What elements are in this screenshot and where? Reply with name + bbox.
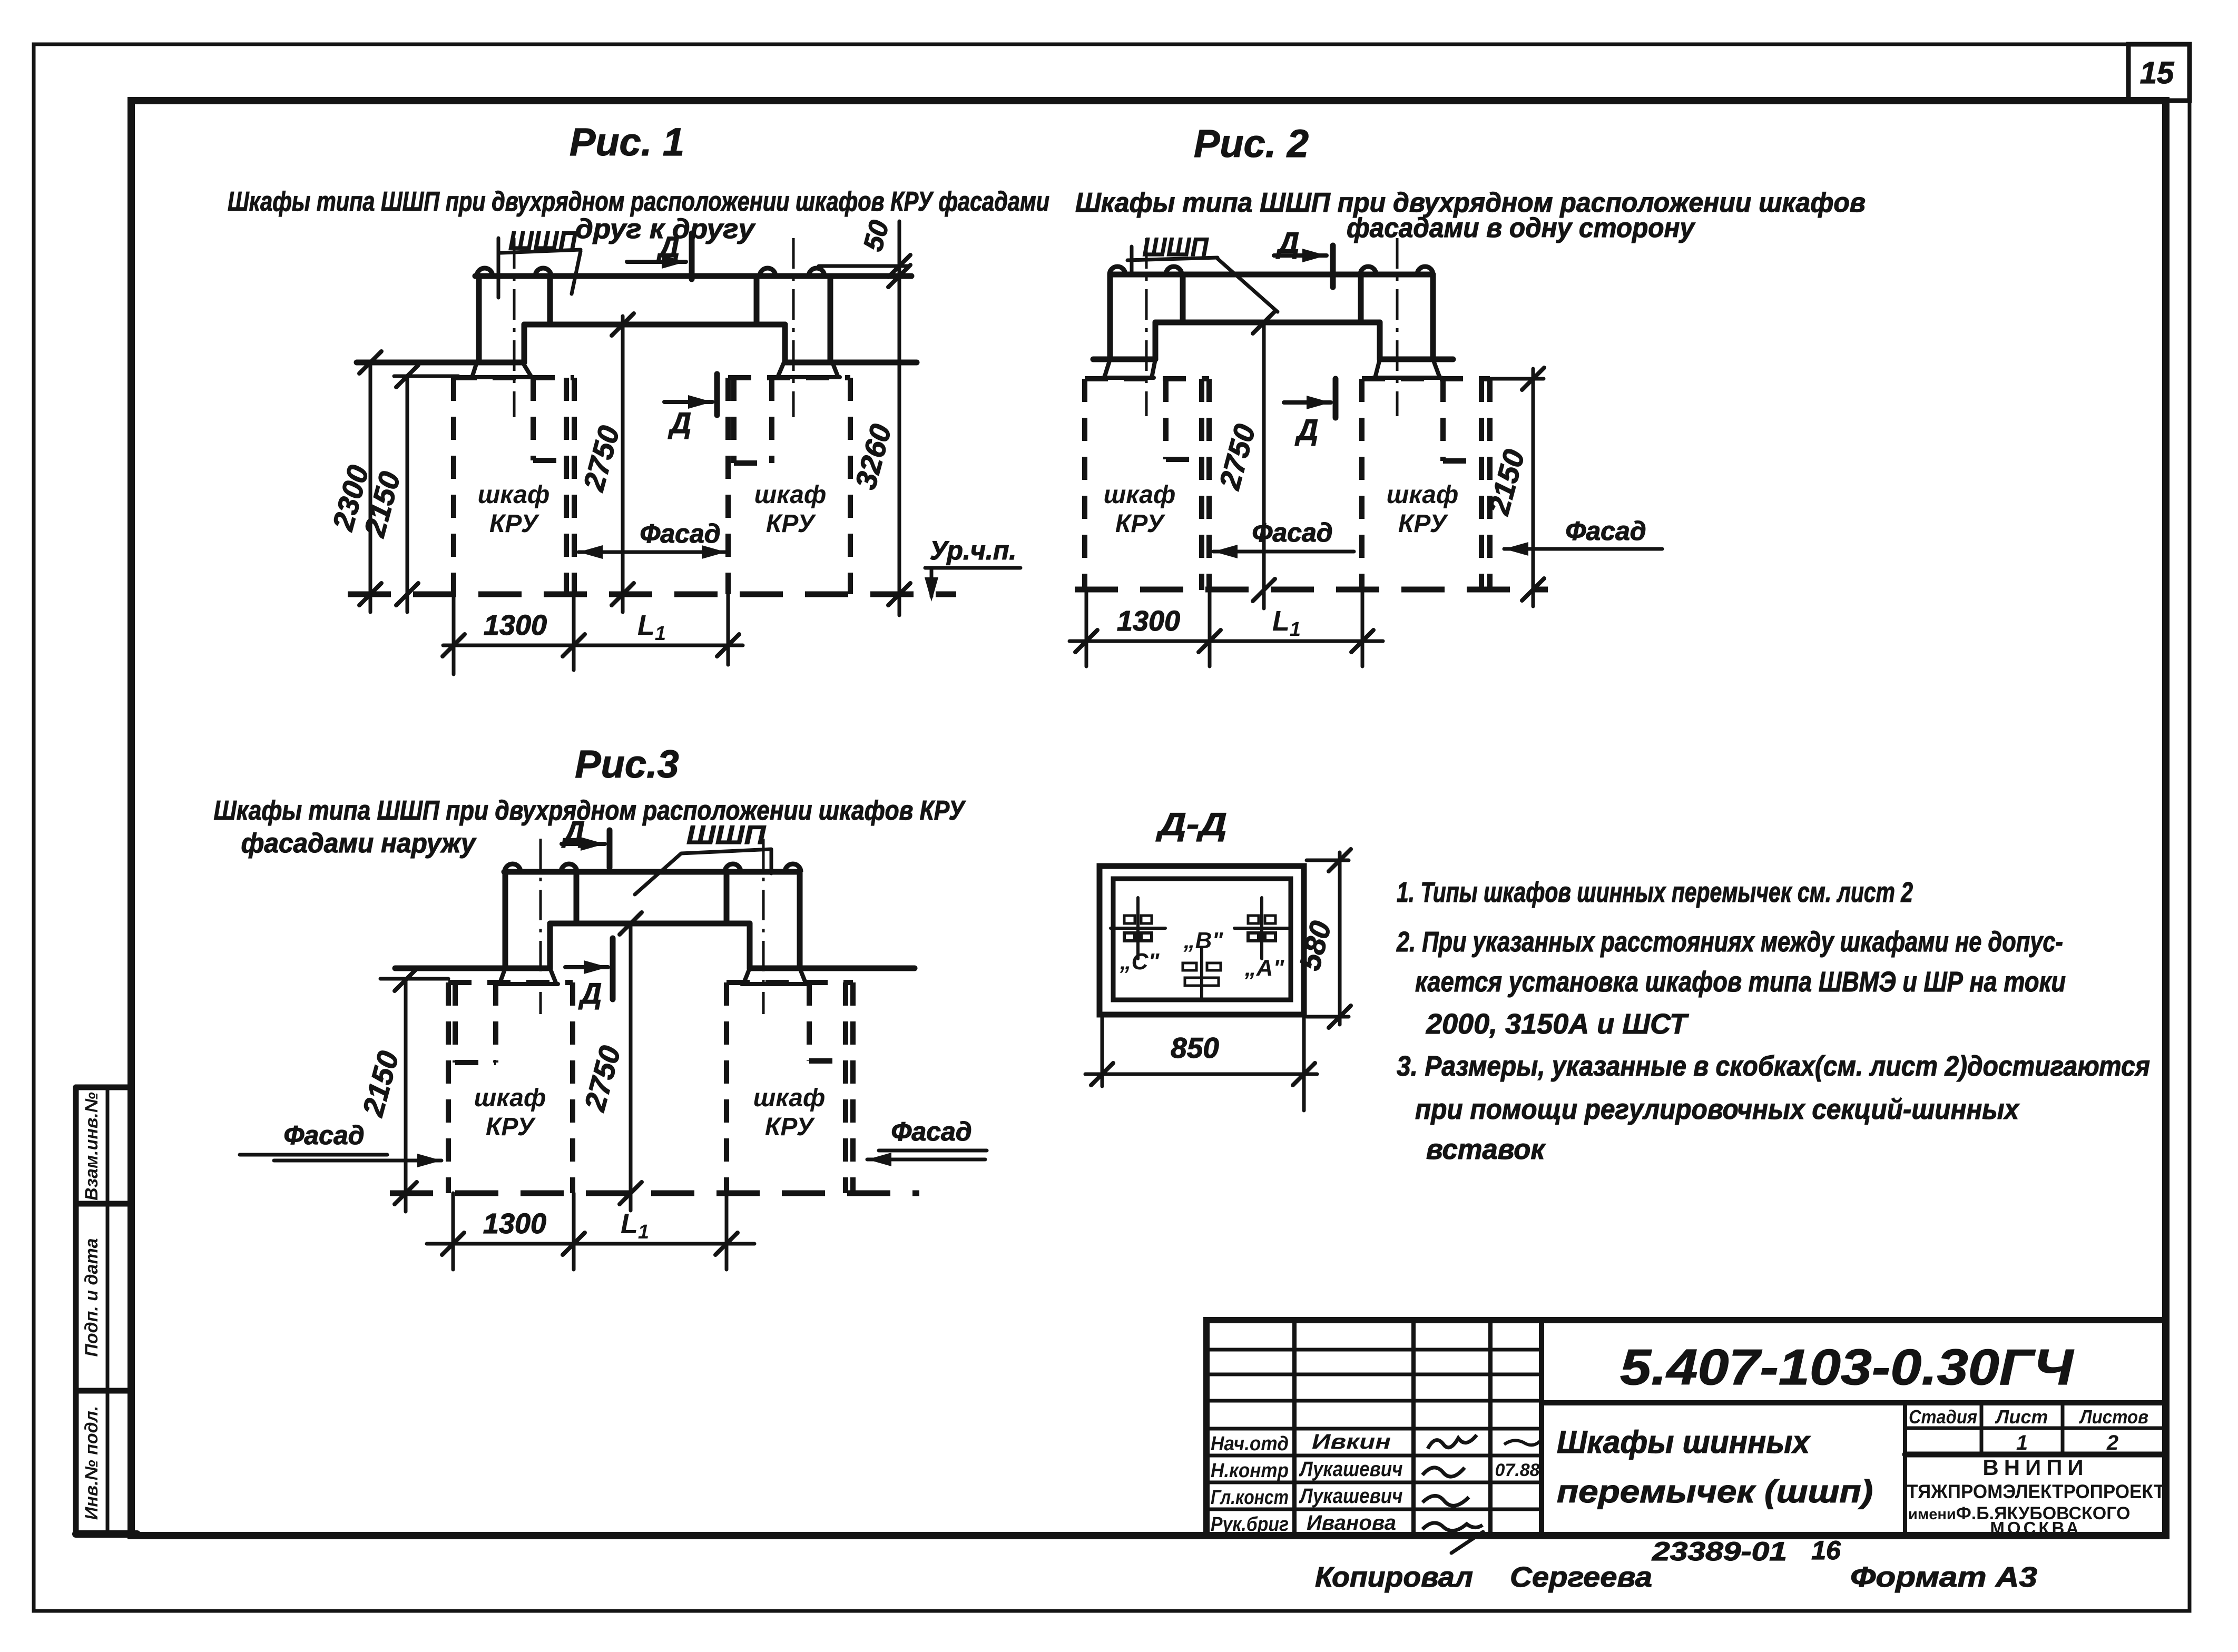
svg-text:Копировал: Копировал xyxy=(1315,1561,1473,1593)
Fig.1 lower D section marker xyxy=(714,374,720,415)
svg-text:при помощи регулировочных секц: при помощи регулировочных секций-шинных xyxy=(1415,1094,2020,1125)
svg-text:1. Типы шкафов шинных перемыче: 1. Типы шкафов шинных перемычек см. лист… xyxy=(1397,877,1913,908)
Fig.2 right skirt xyxy=(1375,359,1380,378)
Fig.2 lower D section marker xyxy=(1333,379,1339,418)
Fig.3 right cabinet (dashed) xyxy=(724,982,729,1193)
Fig.3 lifting loops xyxy=(505,864,521,872)
svg-text:1300: 1300 xyxy=(1117,605,1180,637)
Fig.1 SHSHP top line xyxy=(475,273,911,279)
title block outer box xyxy=(1206,1320,2166,1536)
svg-text:Шкафы шинных: Шкафы шинных xyxy=(1557,1424,1811,1460)
svg-text:ТЯЖПРОМЭЛЕКТРОПРОЕКТ: ТЯЖПРОМЭЛЕКТРОПРОЕКТ xyxy=(1907,1481,2165,1502)
Fig.1 ground line (dashed) xyxy=(348,592,956,597)
svg-text:Ивкин: Ивкин xyxy=(1312,1430,1391,1453)
Fig.3 right skirt xyxy=(743,968,750,984)
svg-text:шкаф: шкаф xyxy=(754,481,827,509)
title block verticals xyxy=(1292,1320,1297,1536)
svg-text:Фасад: Фасад xyxy=(640,519,720,548)
svg-text:Стадия: Стадия xyxy=(1909,1406,1977,1428)
left margin stamp strip xyxy=(73,1087,79,1534)
Fig.2 bottom dim line xyxy=(1069,640,1383,643)
Fig.3 base lines xyxy=(395,966,550,971)
Fig.1 dim 2300 xyxy=(369,362,372,612)
svg-text:Лукашевич: Лукашевич xyxy=(1299,1458,1403,1481)
svg-text:Шкафы типа ШШП при двухрядном: Шкафы типа ШШП при двухрядном расположен… xyxy=(228,186,1049,217)
Fig.2 right cabinet (dashed) xyxy=(1359,379,1365,590)
Fig.1 left cabinet notch xyxy=(531,378,536,460)
svg-text:2000, 3150А и ШСТ: 2000, 3150А и ШСТ xyxy=(1426,1008,1689,1040)
svg-text:Рис.3: Рис.3 xyxy=(575,742,679,786)
Fig.3 SHSHP top line xyxy=(504,869,800,875)
svg-text:Подп. и дата: Подп. и дата xyxy=(82,1238,102,1356)
Fig.1 dim 50 xyxy=(819,264,907,268)
Fig.3 lower D section marker xyxy=(610,938,616,999)
svg-text:3. Размеры, указанные в скобка: 3. Размеры, указанные в скобках(см. лист… xyxy=(1397,1050,2150,1082)
Fig.1 SHSHP leader line xyxy=(572,251,581,294)
svg-text:2. При указанных расстояниях м: 2. При указанных расстояниях между шкафа… xyxy=(1396,926,2063,958)
svg-text:перемычек (шшп): перемычек (шшп) xyxy=(1557,1474,1873,1509)
Fig.1 right tower xyxy=(754,276,760,324)
svg-text:1300: 1300 xyxy=(483,1208,546,1240)
D-D inner rectangle xyxy=(1113,879,1291,1000)
Fig.1 right skirt xyxy=(778,362,784,377)
svg-text:Листов: Листов xyxy=(2078,1406,2148,1428)
Fig.2 left cabinet notch xyxy=(1163,379,1169,459)
svg-text:КРУ: КРУ xyxy=(766,510,817,538)
Fig.2 dim 2750 (center) xyxy=(1262,322,1266,608)
D-D dim 850 xyxy=(1101,1017,1104,1086)
page number box 15 xyxy=(2128,44,2190,101)
svg-text:Иванова: Иванова xyxy=(1307,1511,1396,1535)
svg-text:Н.контр: Н.контр xyxy=(1211,1460,1289,1482)
svg-text:Шкафы типа ШШП при двухрядном: Шкафы типа ШШП при двухрядном расположен… xyxy=(214,795,966,826)
svg-text:фасадами в одну сторону: фасадами в одну сторону xyxy=(1347,213,1696,243)
Fig.2 step verticals xyxy=(1153,322,1159,359)
svg-text:кается установка шкафов типа Ш: кается установка шкафов типа ШВМЭ и ШР н… xyxy=(1415,966,2066,998)
svg-text:шкаф: шкаф xyxy=(1387,481,1459,509)
Fig.1 left cabinet (dashed) xyxy=(451,378,456,594)
svg-text:Фасад: Фасад xyxy=(891,1117,971,1146)
D-D dim 580 xyxy=(1307,859,1349,862)
Fig.1 left tower xyxy=(476,276,482,362)
svg-text:шкаф: шкаф xyxy=(753,1084,826,1112)
svg-text:вставок: вставок xyxy=(1426,1134,1546,1165)
svg-text:Инв.№ подл.: Инв.№ подл. xyxy=(82,1406,102,1520)
svg-text:шкаф: шкаф xyxy=(478,481,550,509)
svg-text:Д-Д: Д-Д xyxy=(1155,807,1227,842)
title block horizontal rows (left grid) xyxy=(1206,1348,1542,1352)
svg-text:1: 1 xyxy=(2016,1431,2028,1454)
svg-text:Лукашевич: Лукашевич xyxy=(1299,1484,1403,1508)
svg-text:МОСКВА: МОСКВА xyxy=(1990,1518,2081,1538)
Fig.3 left skirt xyxy=(499,968,505,984)
svg-text:5.407-103-0.30ГЧ: 5.407-103-0.30ГЧ xyxy=(1620,1339,2074,1395)
Fig.1 left skirt xyxy=(472,362,477,377)
Fig.1 right cabinet notch xyxy=(769,378,774,463)
D-D phase C symbol xyxy=(1136,898,1140,959)
Fig.2 ground line (dashed) xyxy=(1075,587,1548,593)
svg-text:шкаф: шкаф xyxy=(474,1084,546,1112)
Fig.1 dim 3260 xyxy=(898,221,901,615)
Fig.3 dim 2750 (center) xyxy=(629,923,633,1211)
Fig.2 SHSHP leader xyxy=(1218,259,1278,312)
svg-text:шкаф: шкаф xyxy=(1104,481,1176,509)
svg-text:1300: 1300 xyxy=(484,609,547,641)
svg-text:07.88: 07.88 xyxy=(1495,1460,1539,1480)
svg-text:Лист: Лист xyxy=(1995,1406,2048,1428)
svg-text:Ур.ч.п.: Ур.ч.п. xyxy=(930,536,1017,565)
Fig.3 left cabinet (dashed) xyxy=(446,982,451,1193)
svg-text:Д: Д xyxy=(668,406,691,439)
Fig.3 middle box top xyxy=(550,921,750,927)
svg-text:Формат А3: Формат А3 xyxy=(1850,1561,2037,1593)
D-D outer rectangle xyxy=(1100,866,1304,1015)
Fig.3 left tower xyxy=(503,872,508,968)
svg-text:Нач.отд: Нач.отд xyxy=(1211,1433,1289,1455)
main drawing frame (thick) xyxy=(131,101,2166,1536)
svg-text:ШШП: ШШП xyxy=(686,820,766,850)
D-D phase B symbol xyxy=(1200,948,1203,999)
small tail below sig column xyxy=(1451,1532,1483,1553)
D-D phase A symbol xyxy=(1260,898,1263,959)
svg-text:КРУ: КРУ xyxy=(765,1113,816,1141)
Fig.2 lifting loops xyxy=(1110,267,1125,274)
svg-text:Д: Д xyxy=(578,977,602,1010)
Fig.2 middle box top xyxy=(1155,320,1380,326)
Fig.3 right cabinet notch xyxy=(807,982,812,1061)
svg-text:„В": „В" xyxy=(1183,928,1224,953)
svg-text:Рис. 1: Рис. 1 xyxy=(570,120,684,164)
Fig.1 tower centerlines xyxy=(513,238,516,417)
Fig.3 ground line (dashed) xyxy=(390,1191,919,1196)
svg-text:16: 16 xyxy=(1811,1536,1841,1565)
Fig.2 SHSHP top line xyxy=(1110,272,1433,278)
Fig.1 right cabinet (dashed) xyxy=(725,378,731,594)
svg-text:Фасад: Фасад xyxy=(1252,518,1332,547)
svg-text:КРУ: КРУ xyxy=(489,510,540,538)
Fig.2 right tower xyxy=(1358,274,1364,322)
svg-text:Гл.конст: Гл.конст xyxy=(1211,1487,1289,1509)
svg-text:Рук.бриг: Рук.бриг xyxy=(1211,1513,1289,1536)
svg-text:КРУ: КРУ xyxy=(486,1113,536,1141)
svg-text:Сергеева: Сергеева xyxy=(1510,1561,1652,1593)
svg-text:Фасад: Фасад xyxy=(1565,516,1646,546)
svg-text:фасадами наружу: фасадами наружу xyxy=(241,828,477,859)
Fig.3 left cabinet notch xyxy=(493,982,498,1063)
svg-text:КРУ: КРУ xyxy=(1115,510,1166,538)
Fig.1 dim 2150 xyxy=(394,375,458,378)
svg-text:850: 850 xyxy=(1171,1031,1219,1064)
Fig.3 right tower xyxy=(724,872,730,923)
Fig.2 left tower xyxy=(1107,274,1113,359)
svg-text:Фасад: Фасад xyxy=(283,1120,364,1150)
svg-text:Взам.инв.№: Взам.инв.№ xyxy=(82,1092,102,1201)
svg-text:„С": „С" xyxy=(1120,949,1160,975)
svg-text:Рис. 2: Рис. 2 xyxy=(1194,122,1309,165)
document number cell xyxy=(1542,1400,2166,1405)
svg-text:15: 15 xyxy=(2140,56,2174,90)
Fig.1 bottom dim line xyxy=(443,644,743,647)
svg-text:2: 2 xyxy=(2106,1431,2118,1454)
Fig.1 step verticals xyxy=(522,324,527,362)
Fig.1 middle box top xyxy=(524,322,785,328)
Fig.2 dim 2150 (right) xyxy=(1486,377,1544,381)
Fig.3 dim 2150 xyxy=(380,977,448,981)
Fig.2 left skirt xyxy=(1104,359,1110,378)
svg-text:Д: Д xyxy=(1295,413,1318,446)
svg-text:23389-01: 23389-01 xyxy=(1652,1537,1787,1566)
Fig.3 bottom dim line xyxy=(427,1242,754,1246)
Fig.3 step verticals xyxy=(547,923,553,968)
Fig.2 base lines xyxy=(1093,357,1155,362)
Fig.1 lifting loops xyxy=(477,268,493,276)
Fig.3 tower centerlines xyxy=(539,839,542,1014)
stage/sheet sub-table xyxy=(1903,1403,1907,1536)
svg-text:КРУ: КРУ xyxy=(1398,510,1449,538)
Fig.1 base lines xyxy=(357,360,524,366)
Fig.2 right cabinet notch xyxy=(1440,379,1446,461)
svg-text:„А": „А" xyxy=(1244,955,1285,981)
signature squiggle 1 xyxy=(1428,1435,1477,1449)
Fig.2 left cabinet (dashed) xyxy=(1082,379,1087,590)
Fig.1 dim 2750 (center) xyxy=(621,316,625,612)
Fig.2 tower centerlines xyxy=(1145,238,1148,416)
Fig.3 SHSHP leader xyxy=(635,853,681,894)
svg-text:ВНИПИ: ВНИПИ xyxy=(1982,1455,2088,1480)
